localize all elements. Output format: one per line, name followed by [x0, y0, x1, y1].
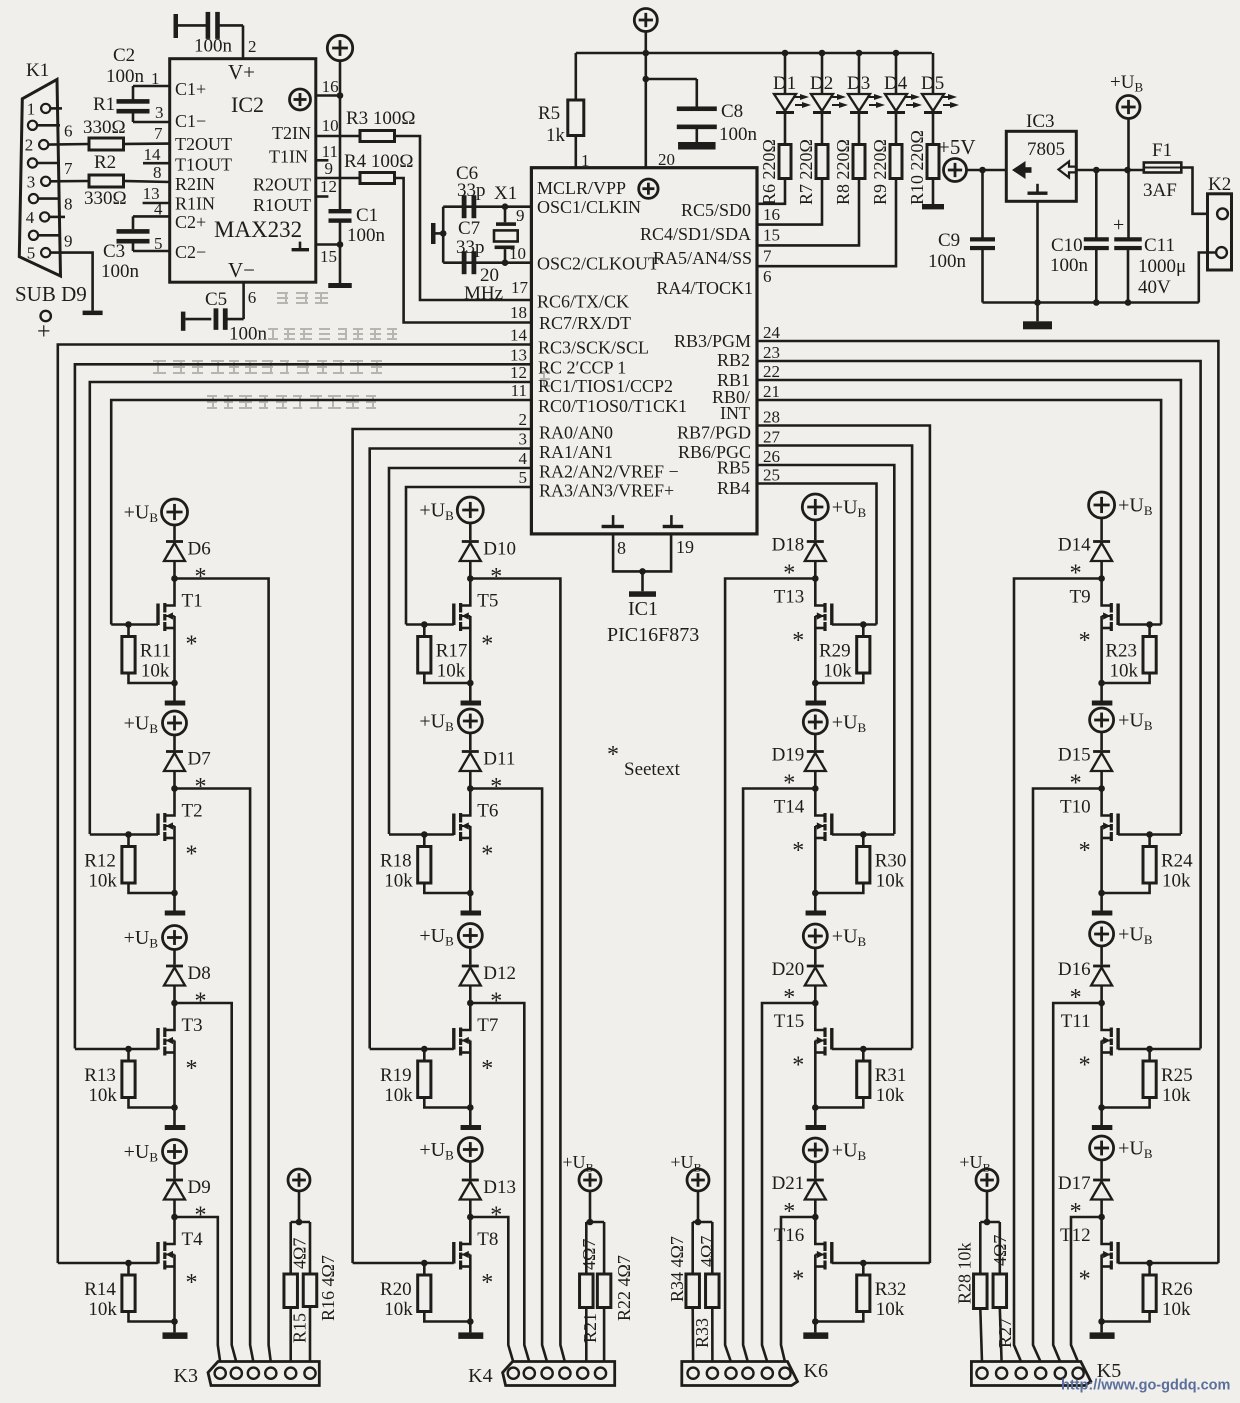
- svg-text:D9: D9: [188, 1177, 211, 1198]
- wire +UB to resistor pair K5: [980, 1192, 1000, 1274]
- svg-text:RC0/T1OS0/T1CK1: RC0/T1OS0/T1CK1: [538, 396, 687, 416]
- svg-text:19: 19: [676, 537, 694, 557]
- diode D21: [772, 1162, 826, 1217]
- ground: [461, 701, 482, 706]
- svg-text:R31: R31: [875, 1065, 907, 1086]
- wire T7 source to ground: [469, 1108, 472, 1126]
- svg-text:16: 16: [763, 205, 780, 224]
- wire T3 source to ground: [173, 1108, 176, 1126]
- wire +5V rail node: [782, 50, 789, 57]
- svg-text:R16 4Ω7: R16 4Ω7: [318, 1255, 338, 1321]
- transistor T6 (MOSFET): [452, 789, 498, 894]
- diode D18: [772, 520, 826, 579]
- svg-text:D15: D15: [1058, 745, 1091, 766]
- svg-text:11: 11: [511, 381, 527, 400]
- svg-text:12: 12: [510, 363, 527, 382]
- K1 pin 4: [26, 208, 50, 227]
- wire IC1 RB2 (pin 23) to driver gate bus: [757, 343, 1201, 1049]
- svg-text:8: 8: [64, 195, 73, 214]
- svg-text:4Ω7: 4Ω7: [290, 1238, 310, 1269]
- svg-text:RC1/TIOS1/CCP2: RC1/TIOS1/CCP2: [538, 376, 673, 396]
- wire T1 drain node to connector pin: [175, 579, 271, 1363]
- resistor R7 220Ω: [796, 114, 828, 205]
- svg-text:3: 3: [27, 172, 36, 191]
- svg-text:R9 220Ω: R9 220Ω: [870, 139, 890, 205]
- svg-text:5: 5: [519, 468, 528, 487]
- svg-text:C5: C5: [205, 289, 227, 310]
- transistor T14 (MOSFET): [774, 789, 834, 894]
- svg-text:C2+: C2+: [175, 212, 206, 232]
- LED D1: [773, 53, 811, 114]
- wire T3 drain node to connector pin: [175, 1003, 237, 1362]
- svg-text:T1IN: T1IN: [269, 147, 308, 167]
- connector K2: [1208, 174, 1232, 270]
- +UB power symbol: [124, 499, 188, 525]
- svg-text:PIC16F873: PIC16F873: [607, 624, 699, 646]
- K1 pin 3: [27, 172, 51, 191]
- svg-text:T8: T8: [477, 1229, 498, 1250]
- svg-text:K1: K1: [26, 60, 49, 81]
- diode D13: [460, 1162, 516, 1218]
- svg-text:*: *: [186, 632, 198, 658]
- transistor T11 (MOSFET): [1061, 1003, 1120, 1108]
- wire gate T12: [1118, 1262, 1218, 1265]
- svg-text:R21: R21: [580, 1313, 600, 1343]
- svg-text:10k: 10k: [384, 1085, 413, 1106]
- svg-text:10k: 10k: [437, 661, 466, 682]
- svg-text:D5: D5: [921, 73, 944, 94]
- svg-text:3: 3: [155, 103, 164, 122]
- svg-text:*: *: [490, 774, 502, 800]
- wire gate T6: [389, 833, 454, 836]
- ground: [165, 1125, 186, 1130]
- svg-text:R2: R2: [94, 152, 116, 173]
- svg-text:R29: R29: [819, 641, 851, 662]
- K1 pin 1: [27, 99, 51, 118]
- capacitor C3 100n: [101, 216, 150, 282]
- wire gate T15: [832, 1048, 912, 1051]
- svg-text:RC 2′CCP 1: RC 2′CCP 1: [538, 358, 626, 378]
- ground symbol inside IC2: [292, 242, 309, 252]
- svg-text:C10: C10: [1051, 235, 1083, 256]
- svg-text:22: 22: [763, 362, 780, 381]
- resistor R32 10k: [812, 1260, 906, 1325]
- svg-text:*: *: [481, 1270, 493, 1296]
- capacitor C8 100n: [646, 79, 758, 145]
- svg-text:3AF: 3AF: [1143, 180, 1177, 201]
- connector K1 (SUB D9): [19, 60, 60, 276]
- K1 pin 9: [29, 231, 73, 251]
- wire +5V to IC1 pin20: [643, 32, 676, 170]
- +UB power symbol: [802, 494, 866, 520]
- wire gate T13: [832, 623, 877, 626]
- svg-text:T2IN: T2IN: [272, 123, 311, 143]
- IC U1 PIC16F873 body: [531, 168, 757, 534]
- +UB power symbol at K4: [562, 1152, 601, 1191]
- diode D10: [460, 523, 516, 579]
- svg-text:16: 16: [322, 77, 339, 96]
- svg-text:D1: D1: [773, 73, 796, 94]
- resistor R30 10k: [812, 831, 906, 896]
- svg-text:RC4/SD1/SDA: RC4/SD1/SDA: [640, 224, 751, 244]
- svg-text:R6 220Ω: R6 220Ω: [759, 139, 779, 205]
- resistor R26 10k: [1098, 1260, 1192, 1325]
- svg-text:*: *: [792, 628, 804, 654]
- svg-text:33p: 33p: [457, 180, 486, 201]
- svg-text:1: 1: [151, 69, 160, 88]
- svg-text:C2: C2: [113, 45, 135, 66]
- svg-text:*: *: [195, 1203, 207, 1229]
- node: [171, 1000, 178, 1007]
- svg-text:MAX232: MAX232: [214, 217, 302, 242]
- wire IC1 RB5 (pin 26) to driver gate bus: [757, 447, 894, 834]
- svg-text:T13: T13: [774, 587, 805, 608]
- svg-text:R12: R12: [84, 851, 116, 872]
- capacitor C2 100n: [106, 45, 150, 122]
- svg-text:18: 18: [510, 303, 527, 322]
- wire T14 drain node to connector pin: [743, 789, 815, 1363]
- wire T9 drain node to connector pin: [1014, 579, 1102, 1363]
- svg-text:*: *: [783, 985, 795, 1011]
- svg-text:R28 10k: R28 10k: [955, 1242, 975, 1304]
- svg-text:C7: C7: [458, 218, 480, 239]
- svg-text:http://www.go-gddq.com: http://www.go-gddq.com: [1061, 1378, 1230, 1394]
- diode D15: [1058, 732, 1112, 789]
- wire T11 drain node to connector pin: [1053, 1003, 1101, 1362]
- svg-text:MHz: MHz: [464, 283, 503, 304]
- ground: [922, 204, 944, 209]
- diode D11: [460, 733, 516, 789]
- +UB power symbol: [419, 709, 482, 734]
- svg-text:T1OUT: T1OUT: [175, 155, 232, 175]
- resistor R13 10k: [84, 1046, 178, 1111]
- wire gate T3: [75, 1048, 158, 1051]
- svg-text:D21: D21: [772, 1173, 805, 1194]
- wire T4 source to ground: [173, 1322, 176, 1333]
- wire IC2 pin16 rail: [316, 61, 344, 99]
- top +5V rail: [576, 52, 932, 55]
- svg-text:RA3/AN3/VREF+: RA3/AN3/VREF+: [539, 481, 674, 501]
- svg-text:K3: K3: [174, 1365, 198, 1387]
- wire IC1 RA0/AN0 (pin 2) to driver gate bus: [353, 410, 532, 1263]
- transistor T16 (MOSFET): [774, 1217, 834, 1322]
- resistor R1 330Ω: [83, 94, 126, 150]
- wire gate T4: [58, 1262, 158, 1265]
- svg-text:RA5/AN4/SS: RA5/AN4/SS: [653, 248, 752, 268]
- resistor R10 220Ω: [907, 114, 939, 205]
- diode D19: [772, 734, 826, 789]
- resistor R5 1k: [538, 53, 590, 170]
- capacitor C5 100n: [181, 282, 268, 344]
- wire IC3 out rail: [1076, 167, 1144, 174]
- IC U3 7805 regulator: [1006, 111, 1076, 201]
- svg-text:100n: 100n: [229, 324, 268, 345]
- svg-text:R24: R24: [1161, 851, 1193, 872]
- wire T12 drain node to connector pin: [1071, 1217, 1102, 1362]
- +UB power symbol: [419, 924, 482, 949]
- svg-text:28: 28: [763, 408, 780, 427]
- LED D5: [921, 53, 959, 114]
- svg-text:*: *: [490, 1203, 502, 1229]
- ground: [1090, 1332, 1115, 1339]
- svg-text:T3: T3: [182, 1015, 203, 1036]
- svg-text:27: 27: [763, 428, 781, 447]
- svg-text:R26: R26: [1161, 1279, 1193, 1300]
- wire T4 drain node to connector pin: [175, 1217, 221, 1362]
- resistor R15 4Ω7: [284, 1238, 310, 1362]
- svg-text:10k: 10k: [1162, 871, 1191, 892]
- K1 shell contact: [37, 311, 51, 345]
- svg-text:T2OUT: T2OUT: [175, 134, 232, 154]
- svg-text:C2−: C2−: [175, 242, 206, 262]
- ground: [806, 701, 827, 706]
- K1 pin 5: [27, 244, 51, 263]
- svg-text:T12: T12: [1060, 1225, 1091, 1246]
- svg-text:SUB D9: SUB D9: [15, 282, 87, 306]
- +UB power symbol: [124, 1140, 187, 1165]
- svg-text:RB2: RB2: [717, 350, 750, 370]
- svg-text:8: 8: [617, 538, 626, 558]
- svg-text:C8: C8: [721, 101, 743, 122]
- +UB power symbol: [803, 924, 866, 949]
- svg-text:R17: R17: [436, 641, 468, 662]
- svg-text:T11: T11: [1061, 1011, 1091, 1032]
- svg-text:4Ω7: 4Ω7: [990, 1235, 1010, 1266]
- wire gate T1: [111, 623, 158, 626]
- wire +5V rail node: [856, 50, 863, 57]
- wire IC1 RC0/T1OS0/T1CK1 (pin 11) to driver gate bus: [111, 381, 531, 625]
- svg-text:C1: C1: [356, 205, 378, 226]
- ground: [803, 1332, 828, 1339]
- svg-text:*: *: [186, 1270, 198, 1296]
- wire T9 source to ground: [1100, 683, 1103, 701]
- svg-text:R27: R27: [995, 1318, 1015, 1348]
- svg-text:*: *: [1070, 771, 1082, 797]
- svg-text:14: 14: [144, 145, 162, 164]
- resistor R21 4Ω7: [579, 1239, 600, 1362]
- svg-text:100n: 100n: [101, 261, 140, 282]
- svg-text:R25: R25: [1161, 1065, 1193, 1086]
- svg-text:1k: 1k: [546, 125, 566, 146]
- svg-text:RA0/AN0: RA0/AN0: [539, 423, 613, 443]
- svg-text:C1−: C1−: [175, 111, 206, 131]
- svg-text:D16: D16: [1058, 959, 1091, 980]
- svg-text:R4 100Ω: R4 100Ω: [344, 151, 414, 172]
- wire R9 to IC1 pin 6: [757, 179, 896, 287]
- +UB power symbol at K6: [670, 1152, 709, 1191]
- power symbol +5V at IC2 pin16: [327, 35, 352, 60]
- diode D20: [772, 948, 826, 1003]
- svg-text:T7: T7: [477, 1015, 498, 1036]
- svg-text:*: *: [607, 742, 619, 768]
- svg-text:7: 7: [763, 246, 772, 265]
- wire T2 source to ground: [173, 893, 176, 911]
- wire gate T16: [832, 1262, 930, 1265]
- IC2 pin 12 stub: [316, 177, 337, 197]
- transistor T9 (MOSFET): [1069, 579, 1119, 684]
- svg-text:13: 13: [510, 345, 527, 364]
- wire T12 source to ground: [1100, 1322, 1103, 1333]
- resistor R25 10k: [1098, 1046, 1192, 1111]
- transistor T7 (MOSFET): [452, 1003, 498, 1108]
- svg-text:R13: R13: [84, 1065, 116, 1086]
- resistor R29 10k: [812, 621, 870, 686]
- node: [1098, 1214, 1105, 1221]
- wire +UB to resistor pair K3: [291, 1192, 310, 1274]
- power symbol +UB battery: [1110, 72, 1143, 119]
- note: asterisk Seetext: [607, 742, 681, 780]
- wire R7 to IC1 pin 15: [757, 179, 822, 245]
- supply ground rail: [983, 299, 1199, 306]
- svg-text:R19: R19: [380, 1065, 412, 1086]
- svg-text:T15: T15: [774, 1011, 805, 1032]
- svg-text:D19: D19: [772, 745, 805, 766]
- svg-text:6: 6: [248, 288, 257, 307]
- wire T6 source to ground: [469, 893, 472, 911]
- node: [1098, 1000, 1105, 1007]
- K1 pin 1 stub: [50, 107, 62, 110]
- resistor R22 4Ω7: [597, 1255, 634, 1362]
- svg-text:*: *: [783, 1199, 795, 1225]
- wire T7 drain node to connector pin: [470, 1003, 529, 1362]
- svg-text:R23: R23: [1105, 641, 1137, 662]
- transistor T5 (MOSFET): [452, 579, 498, 684]
- LED D4: [884, 53, 922, 114]
- svg-text:R15: R15: [290, 1313, 310, 1343]
- svg-text:T2: T2: [182, 801, 203, 822]
- node: [812, 785, 819, 792]
- svg-text:RC7/RX/DT: RC7/RX/DT: [539, 313, 631, 333]
- wire T16 drain node to connector pin: [781, 1217, 815, 1362]
- svg-text:10k: 10k: [1110, 661, 1139, 682]
- LED D2: [810, 53, 848, 114]
- diode D17: [1058, 1160, 1112, 1217]
- wire T11 source to ground: [1100, 1108, 1103, 1126]
- svg-text:9: 9: [325, 159, 334, 178]
- svg-text:5: 5: [154, 234, 163, 253]
- IC U2 MAX232 body: [170, 59, 316, 283]
- IC2 pin 10 (T2IN): [316, 116, 360, 136]
- svg-text:15: 15: [320, 247, 337, 266]
- transistor T3 (MOSFET): [156, 1003, 202, 1108]
- resistor R34 4Ω7: [667, 1236, 699, 1307]
- svg-text:D17: D17: [1058, 1173, 1091, 1194]
- svg-text:1: 1: [27, 99, 36, 118]
- svg-text:40V: 40V: [1138, 277, 1171, 298]
- svg-text:10k: 10k: [876, 1085, 905, 1106]
- ground: [165, 701, 186, 706]
- ground: [328, 283, 352, 288]
- svg-text:IC3: IC3: [1026, 111, 1055, 132]
- svg-text:D8: D8: [188, 963, 211, 984]
- connector K3: [174, 1362, 320, 1388]
- svg-text:100n: 100n: [719, 124, 758, 145]
- ground: [806, 1125, 827, 1130]
- svg-text:25: 25: [763, 466, 780, 485]
- svg-text:*: *: [481, 632, 493, 658]
- svg-text:*: *: [792, 838, 804, 864]
- wire T13 source to ground: [814, 683, 817, 701]
- wire gate T2: [90, 833, 158, 836]
- svg-text:20: 20: [658, 150, 675, 169]
- svg-text:*: *: [1070, 561, 1082, 587]
- wire R4 to PIC RC7/RX: [395, 178, 532, 323]
- resistor R27 4Ω7: [990, 1235, 1015, 1362]
- resistor R9 220Ω: [870, 114, 902, 205]
- svg-text:9: 9: [64, 231, 73, 250]
- svg-text:7: 7: [64, 159, 73, 178]
- wire IC1 RA2/AN2/VREF- (pin 4) to driver gate bus: [389, 449, 531, 834]
- wire R3 to PIC RC6/TX: [395, 136, 532, 300]
- svg-text:*: *: [1070, 985, 1082, 1011]
- svg-text:RB4: RB4: [717, 478, 750, 498]
- wire R8 to IC1 pin 7: [757, 179, 859, 266]
- wire +UB to resistor pair K6: [693, 1192, 713, 1274]
- resistor R3 100Ω: [346, 108, 416, 142]
- wire T15 source to ground: [814, 1108, 817, 1126]
- ground: [458, 1332, 483, 1339]
- svg-text:D12: D12: [483, 963, 516, 984]
- svg-text:RA4/TOCK1: RA4/TOCK1: [656, 278, 753, 298]
- svg-text:R2OUT: R2OUT: [253, 175, 311, 195]
- svg-text:10k: 10k: [88, 871, 117, 892]
- svg-text:V+: V+: [228, 60, 255, 84]
- wire T5 drain node to connector pin: [470, 579, 565, 1363]
- wire IC3 ground tab: [1036, 201, 1039, 302]
- +UB power symbol: [1090, 1136, 1153, 1161]
- svg-text:R8 220Ω: R8 220Ω: [833, 139, 853, 205]
- diode D14: [1058, 518, 1112, 579]
- wire gate T11: [1118, 1048, 1201, 1051]
- svg-text:4Ω7: 4Ω7: [697, 1236, 717, 1267]
- +UB power symbol: [803, 1138, 866, 1163]
- resistor R20 10k: [380, 1260, 474, 1325]
- svg-text:*: *: [490, 989, 502, 1015]
- node: [812, 1000, 819, 1007]
- svg-text:330Ω: 330Ω: [84, 188, 127, 209]
- LED D3: [847, 53, 885, 114]
- svg-text:6: 6: [64, 121, 73, 140]
- svg-text:4: 4: [26, 208, 35, 227]
- transistor T2 (MOSFET): [156, 789, 202, 894]
- wire IC1 RB6/PGC (pin 27) to driver gate bus: [757, 428, 912, 1049]
- IC2 pin 4 (C2+): [133, 200, 170, 219]
- node: [1098, 785, 1105, 792]
- svg-text:R2IN: R2IN: [175, 174, 215, 194]
- svg-text:*: *: [792, 1267, 804, 1293]
- svg-text:X1: X1: [494, 183, 517, 204]
- wire T10 drain node to connector pin: [1033, 789, 1102, 1363]
- diode D7: [164, 735, 211, 789]
- ground: [806, 911, 827, 916]
- svg-text:33p: 33p: [456, 237, 485, 258]
- svg-text:6: 6: [763, 267, 772, 286]
- capacitor C9 100n: [928, 170, 995, 303]
- svg-text:V−: V−: [228, 258, 255, 282]
- svg-text:OSC1/CLKIN: OSC1/CLKIN: [537, 197, 641, 217]
- svg-text:R30: R30: [875, 851, 907, 872]
- node: [467, 785, 474, 792]
- resistor R31 10k: [812, 1046, 906, 1111]
- wire OSC2 row: [443, 206, 531, 266]
- wire T8 drain node to connector pin: [470, 1217, 513, 1362]
- svg-text:*: *: [481, 842, 493, 868]
- svg-text:10k: 10k: [1162, 1085, 1191, 1106]
- svg-text:D6: D6: [188, 539, 211, 560]
- node: [467, 1214, 474, 1221]
- svg-text:K6: K6: [804, 1360, 828, 1382]
- transistor T15 (MOSFET): [774, 1003, 834, 1108]
